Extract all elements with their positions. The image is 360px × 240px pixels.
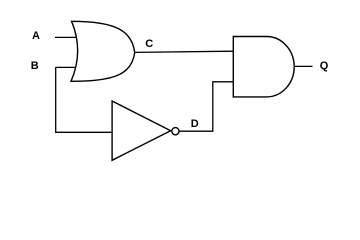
AND gate U3 (233, 37, 294, 97)
svg-text:B: B (31, 60, 39, 72)
svg-text:C: C (145, 38, 153, 50)
wire D from inverter output up to AND input 2 (179, 82, 233, 131)
wire B branch down to inverter (56, 67, 113, 132)
svg-text:D: D (191, 118, 199, 130)
NOT gate bubble (172, 128, 179, 135)
NOT gate (inverter) U2 triangle (112, 101, 171, 160)
OR gate U1 (71, 21, 135, 81)
wire B input (55, 66, 80, 68)
svg-text:A: A (32, 30, 40, 42)
wire A input (55, 36, 80, 38)
wire C from OR output to AND input 1 (135, 51, 234, 52)
wire Q output (294, 65, 313, 67)
svg-text:Q: Q (320, 60, 329, 72)
